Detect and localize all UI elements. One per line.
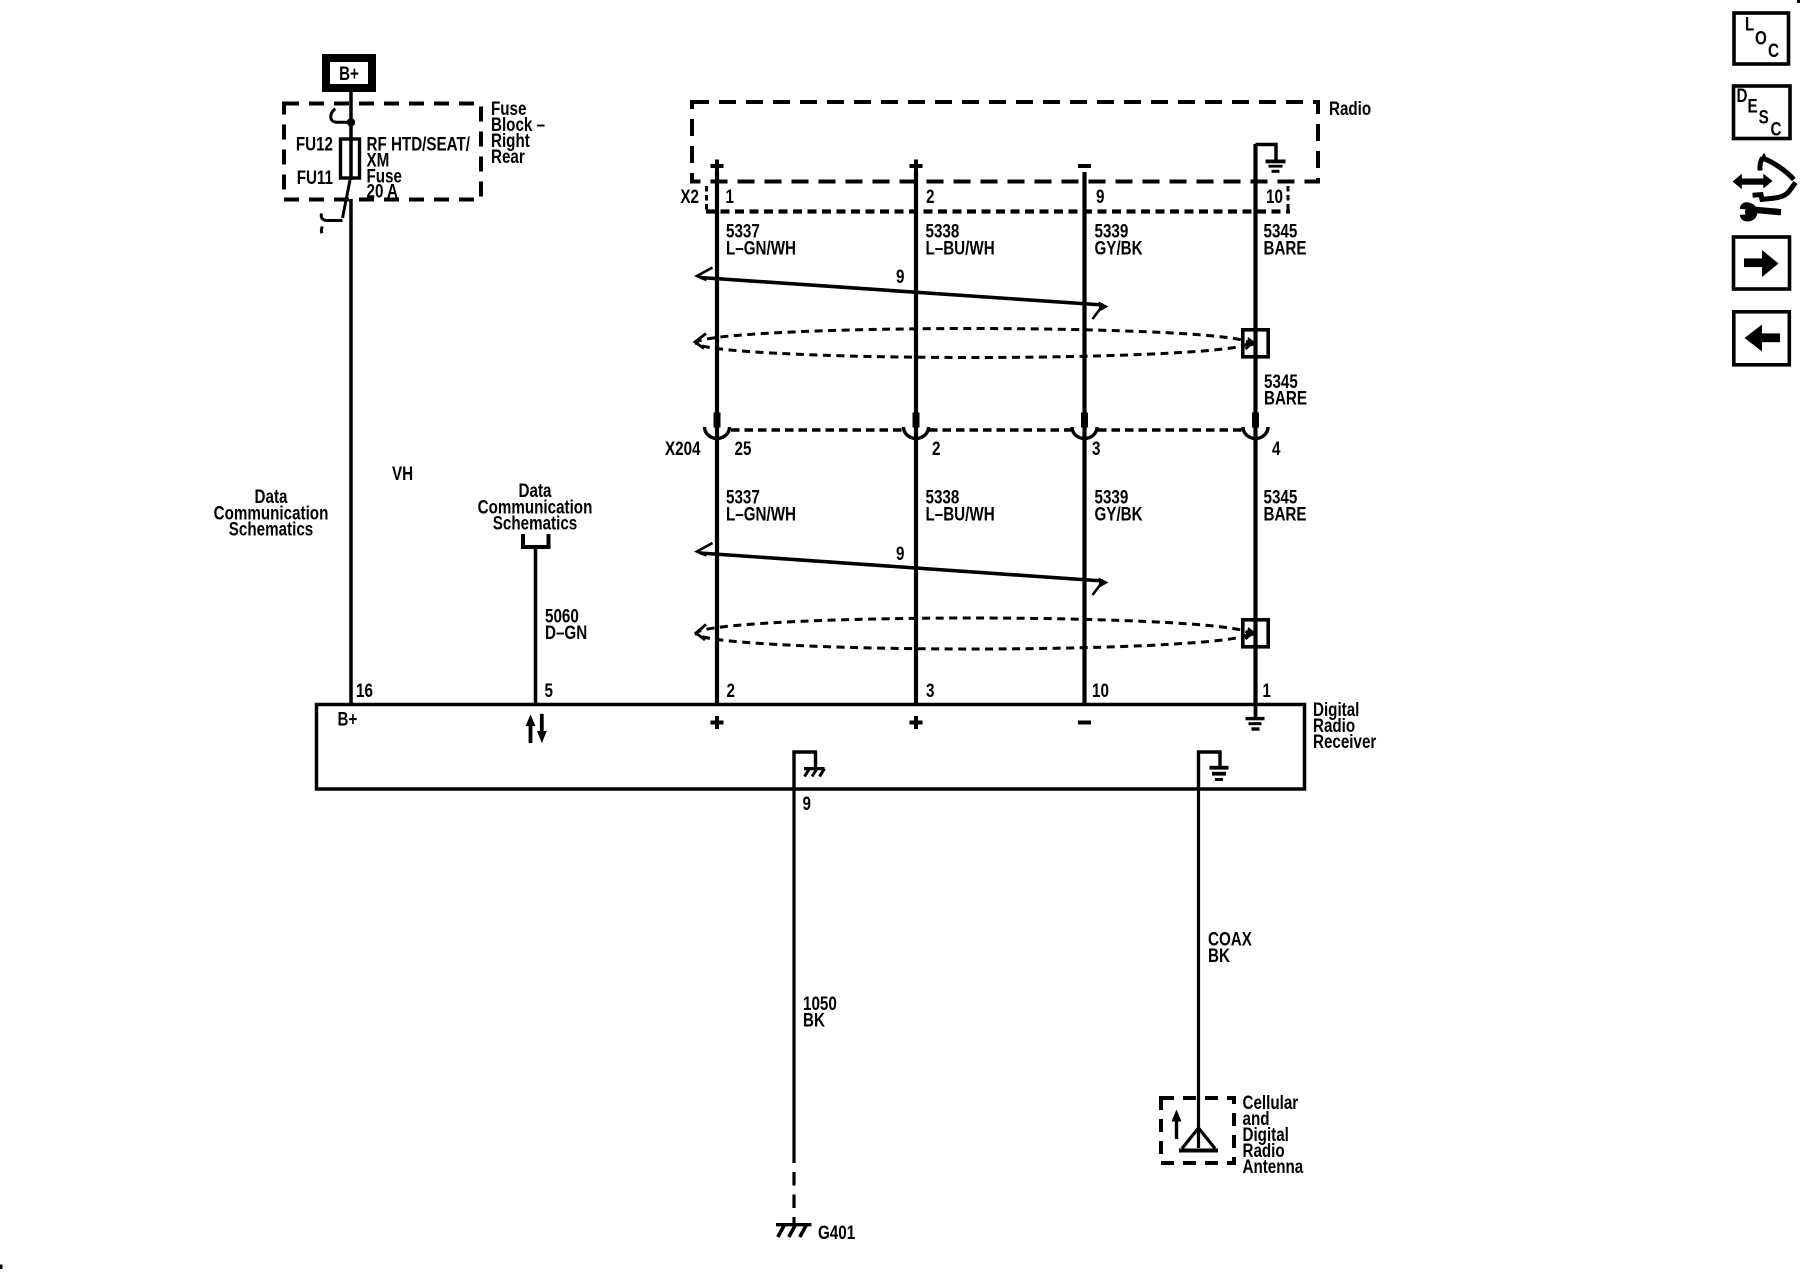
power symbol B+ box [326,58,372,88]
svg-text:G401: G401 [818,1221,856,1243]
svg-text:E: E [1748,95,1758,117]
svg-text:FU11: FU11 [297,166,334,188]
svg-text:BARE: BARE [1264,387,1307,409]
receiver plus pin 2 [711,716,724,729]
svg-text:BK: BK [1208,944,1230,966]
svg-text:2: 2 [932,437,940,459]
terminal FU12 hook [331,109,349,123]
svg-text:9: 9 [896,542,904,564]
X2 right mark [1287,186,1290,211]
svg-text:Schematics: Schematics [229,518,313,540]
radio plus pin 1 [711,160,724,173]
X204 pin 25 male [714,413,721,428]
shield 2 drain box [1243,620,1268,647]
wire 5338 radio pin2 to receiver pin 3 [914,172,918,704]
wire 1050 receiver pin 9 to G401 [792,790,795,1163]
svg-text:S: S [1759,106,1769,128]
svg-text:25: 25 [735,437,752,459]
svg-text:B+: B+ [339,62,359,84]
antenna symbol [1182,1128,1215,1149]
wire B+ to fuse [349,92,353,138]
svg-text:5: 5 [545,679,554,701]
sidebar repair icon [1733,153,1796,222]
X204 pin 4 male [1252,413,1259,428]
twisted pair 2 left arrow [697,543,713,556]
off-page connector bracket [523,534,549,547]
corner mark bottom left [0,1265,3,1270]
receiver pin 1 ground [1254,706,1258,718]
shield 1 left arrow [695,334,706,349]
svg-text:1: 1 [726,185,735,207]
wire 5060 to receiver pin 5 [534,549,538,704]
twisted pair 1 left arrow [697,268,713,281]
wire 5337 radio pin1 to receiver pin 2 [715,172,719,704]
svg-text:L–BU/WH: L–BU/WH [926,237,995,259]
terminal FU11 hook [343,180,351,218]
sidebar back arrow button [1734,312,1790,365]
svg-text:O: O [1755,27,1767,49]
svg-text:Schematics: Schematics [493,512,577,534]
ground G401 [776,1223,812,1226]
wire 5339 radio pin9 to receiver pin 10 [1082,172,1086,704]
antenna up arrow [1175,1118,1178,1139]
svg-text:Antenna: Antenna [1243,1155,1304,1177]
svg-text:BARE: BARE [1264,503,1307,525]
svg-text:GY/BK: GY/BK [1095,503,1144,525]
fuse FU11 [341,139,360,178]
svg-text:L–GN/WH: L–GN/WH [726,237,796,259]
svg-text:9: 9 [896,265,904,287]
svg-text:3: 3 [1092,437,1100,459]
shield 2 left arrow [696,625,706,641]
svg-text:Rear: Rear [491,145,525,167]
svg-text:D–GN: D–GN [545,621,587,643]
X204 pin 3 male [1081,413,1088,428]
svg-text:C: C [1768,39,1779,61]
shield ellipse 2 [696,618,1248,649]
junction dot [347,118,355,126]
coax wire receiver to antenna [1197,790,1200,1148]
svg-text:9: 9 [1096,185,1104,207]
svg-text:FU12: FU12 [296,133,333,155]
antenna box (dashed) [1161,1098,1234,1163]
wire fuse to receiver pin 16 [349,199,353,704]
X204 pin 2 male [913,413,920,428]
svg-text:10: 10 [1092,679,1109,701]
svg-text:BARE: BARE [1264,237,1307,259]
wire through fuse [349,137,353,180]
svg-text:GY/BK: GY/BK [1095,237,1144,259]
twisted pair 2 right arrow [1093,581,1104,595]
svg-text:L–BU/WH: L–BU/WH [926,503,995,525]
wire 5345 radio ground to receiver pin 1 [1253,144,1257,704]
fuse block box (dashed) [284,104,481,200]
radio ground pin 10 [1256,145,1277,161]
svg-text:1: 1 [1263,679,1272,701]
svg-text:4: 4 [1272,437,1281,459]
svg-text:Radio: Radio [1329,97,1371,119]
X2 left mark [705,186,708,211]
connector X204 line [731,428,903,432]
svg-text:VH: VH [392,462,413,484]
svg-text:L–GN/WH: L–GN/WH [726,503,796,525]
svg-text:Receiver: Receiver [1313,730,1377,752]
svg-text:D: D [1737,84,1748,106]
svg-text:X204: X204 [665,437,701,459]
radio plus pin 2 [910,160,923,173]
shield ellipse 1 [696,329,1248,358]
X204 pin 4 female cup [1243,427,1268,439]
shield 2 drain arrow [1246,632,1254,639]
svg-text:B+: B+ [338,708,358,730]
svg-text:16: 16 [356,679,373,701]
svg-text:3: 3 [926,679,934,701]
receiver minus pin 10 [1078,721,1091,725]
twisted pair 1 right arrow [1093,305,1104,319]
svg-text:X2: X2 [680,185,699,207]
sidebar DESC button [1734,86,1791,139]
svg-text:20 A: 20 A [367,180,399,202]
corner mark top right [1797,0,1800,3]
Digital Radio Receiver box [317,705,1305,790]
svg-text:C: C [1771,118,1782,140]
radio minus pin 9 [1078,164,1091,168]
shield 1 drain arrow [1246,342,1254,349]
twisted pair line 2 [700,553,1103,581]
receiver serial data arrows [526,715,536,727]
receiver coax shield ground [1199,752,1221,788]
receiver chassis ground pin 9 [794,752,816,788]
Radio box (dashed) [692,102,1318,182]
svg-text:L: L [1745,13,1754,35]
sidebar LOC button [1734,13,1789,64]
X204 pin 25 female cup [705,427,730,438]
svg-text:10: 10 [1266,185,1283,207]
twisted pair line 1 [700,278,1103,306]
sidebar next arrow button [1734,237,1790,289]
svg-text:9: 9 [803,792,811,814]
shield 1 drain box [1243,330,1268,357]
connector X2 line [706,209,1290,213]
svg-text:2: 2 [727,679,735,701]
svg-text:BK: BK [803,1009,825,1031]
X204 pin 2 female cup [904,427,929,439]
svg-text:2: 2 [926,185,934,207]
receiver plus pin 3 [910,716,923,729]
X204 pin 3 female cup [1072,427,1097,439]
